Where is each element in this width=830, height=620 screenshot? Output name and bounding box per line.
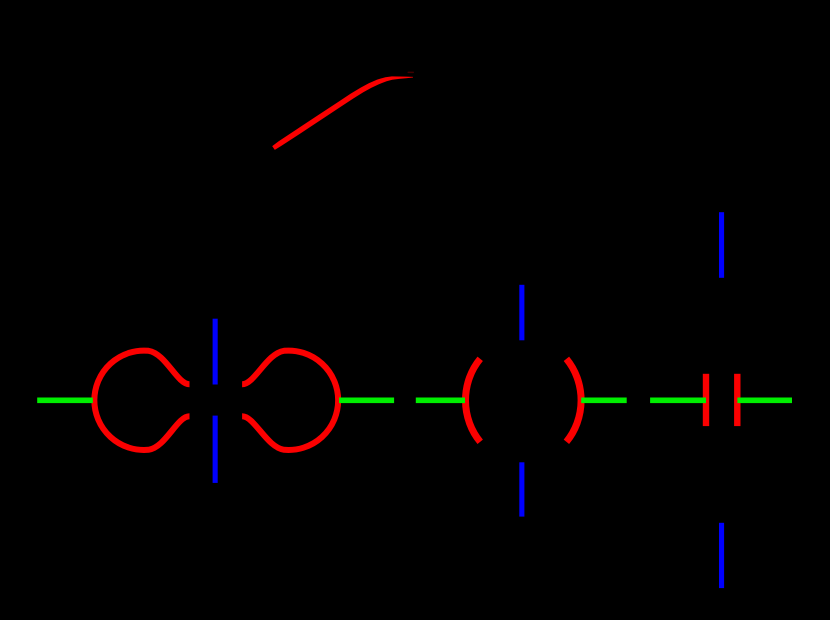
wire W3: green dash left of circle bbox=[416, 398, 465, 404]
loop L1: left red lobe of bowtie bbox=[94, 351, 189, 450]
wire W6: green dash right of capacitor bbox=[737, 398, 792, 404]
cut line C2b: blue dash below middle circle bbox=[519, 462, 524, 516]
wire W4: green dash right of circle bbox=[581, 398, 627, 404]
cut line C3b: blue dash below capacitor bbox=[719, 523, 724, 588]
wire W5: green dash left of capacitor bbox=[650, 398, 706, 404]
cut line C1a: blue dash above bowtie pinch bbox=[213, 319, 218, 385]
cut line C1b: blue dash below bowtie pinch bbox=[213, 416, 218, 483]
wire W1: green dash left of bowtie bbox=[37, 398, 93, 404]
arc A1: left red arc of middle circle bbox=[466, 359, 481, 442]
loop L2: right red lobe of bowtie bbox=[242, 351, 338, 450]
wire: tapered red curved stroke (top annotation) bbox=[272, 76, 413, 149]
bar B1: left red capacitor plate bbox=[703, 374, 709, 426]
cut line C2a: blue dash above middle circle bbox=[519, 285, 524, 341]
cut line C3a: blue dash above capacitor bbox=[719, 212, 724, 278]
bar B2: right red capacitor plate bbox=[734, 374, 740, 426]
faint red wisp above stroke tip bbox=[408, 72, 415, 74]
arc A2: right red arc of middle circle bbox=[566, 359, 581, 442]
wire W2: green dash right of bowtie bbox=[339, 398, 394, 404]
